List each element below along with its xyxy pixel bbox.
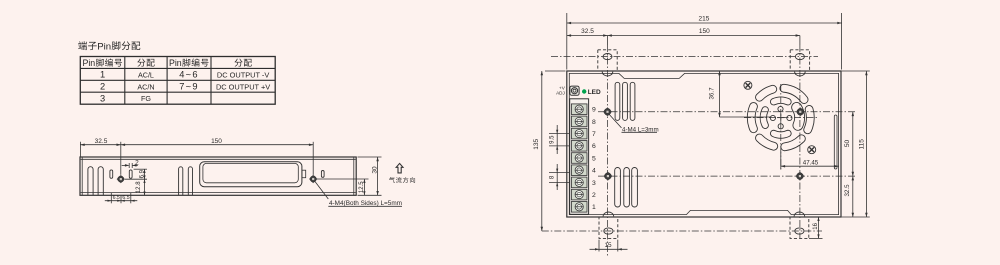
fan guard inner arc slots	[770, 97, 791, 105]
fan hub mounting holes	[778, 106, 783, 111]
side view: latch bump on louver right	[302, 170, 306, 178]
svg-text:Pin: Pin	[169, 58, 182, 68]
right edge connector slot	[834, 115, 837, 169]
svg-text:30: 30	[371, 166, 378, 174]
svg-text:7~9: 7~9	[179, 82, 199, 92]
airflow direction arrow	[396, 163, 403, 173]
svg-text:150: 150	[699, 28, 710, 35]
svg-text:4-M4 L=3mm: 4-M4 L=3mm	[622, 126, 659, 133]
dimension 215 (top)	[841, 13, 843, 70]
svg-text:36.7: 36.7	[709, 87, 716, 100]
svg-text:150: 150	[211, 138, 222, 145]
svg-text:8: 8	[550, 175, 556, 179]
svg-text:DC OUTPUT -V: DC OUTPUT -V	[217, 70, 269, 79]
svg-text:16: 16	[813, 222, 819, 229]
fan horizontal centerline	[744, 117, 819, 119]
top view: case screw lower-left 4-M4	[605, 173, 612, 180]
svg-text:DC OUTPUT +V: DC OUTPUT +V	[216, 82, 270, 91]
svg-text:9: 9	[592, 107, 596, 114]
top view: lower vent slots	[615, 168, 621, 208]
svg-text:FG: FG	[141, 94, 151, 103]
top view: tab hole bump above bottom edge (left)	[603, 212, 614, 216]
svg-text:9.5: 9.5	[550, 135, 556, 144]
top view: tab hole bump below top edge (right)	[795, 72, 806, 76]
dimension 2 (slot width)	[122, 164, 129, 166]
centerline through top tab holes	[551, 56, 818, 58]
side view: middle vent slot 1	[179, 167, 183, 195]
terminal 6	[571, 141, 587, 152]
centerline through upper case screws	[598, 111, 857, 113]
top view: bottom mounting tab (right) dashed	[790, 217, 809, 238]
svg-text:3: 3	[592, 180, 596, 187]
top view: top mounting tab (left) dashed	[598, 50, 617, 71]
svg-text:2: 2	[100, 82, 105, 92]
svg-text:6: 6	[592, 143, 596, 150]
pin assignment table grid	[80, 57, 275, 105]
svg-text:215: 215	[698, 16, 709, 23]
svg-text:2: 2	[135, 160, 139, 167]
airflow direction text	[389, 177, 395, 183]
svg-text:AC/N: AC/N	[137, 82, 154, 91]
svg-text:8: 8	[592, 119, 596, 126]
side view: middle vent slot 2	[188, 167, 192, 195]
dimension 36.7 (top edge to fan center)	[719, 71, 721, 117]
centerline vertical through right tabs and screws	[799, 45, 801, 239]
dimension 32.5 (right, screw line to bottom)	[852, 176, 854, 217]
terminal 9	[571, 104, 587, 115]
svg-text:Pin: Pin	[82, 58, 95, 68]
svg-text:1: 1	[100, 70, 105, 80]
top view: top tab hole (right)	[795, 54, 804, 60]
svg-text:4-M4(Both Sides) L=5mm: 4-M4(Both Sides) L=5mm	[329, 200, 402, 207]
svg-text:50: 50	[844, 140, 851, 148]
svg-text:7: 7	[592, 131, 596, 138]
fan vertical centerline	[780, 84, 782, 170]
svg-text:LED: LED	[588, 89, 601, 96]
svg-text:115: 115	[859, 139, 866, 150]
terminal block outline	[570, 99, 589, 215]
dimension 15 (bottom tab width)	[598, 240, 600, 252]
top view: tab hole bump above bottom edge (right)	[794, 212, 805, 216]
dimension 6.9 / 12.8 (vertical)	[134, 168, 147, 170]
top view: bottom tab hole (left)	[604, 228, 613, 234]
side view: left M4 mounting screw	[118, 176, 124, 182]
svg-text:32.5: 32.5	[581, 28, 594, 35]
label 4-M4 L=3mm with leader	[609, 115, 621, 128]
top view: upper vent slots	[615, 82, 620, 120]
svg-text:Pin: Pin	[97, 41, 111, 52]
dimension 135 (left)	[545, 70, 566, 72]
side view: small slot left of screw	[110, 170, 113, 178]
cross-recess screw top-left of fan	[744, 81, 752, 89]
dimension 50 (right, between screw lines)	[852, 112, 854, 176]
svg-text:ADJ: ADJ	[556, 90, 565, 95]
terminal 4	[571, 165, 587, 176]
fan hub center cross	[777, 117, 785, 119]
label 4-M4(Both Sides) L=5mm with leader	[315, 181, 329, 199]
top view: bottom tab hole (right)	[795, 228, 804, 234]
dimension 32.5 and 150 (top)	[607, 36, 609, 46]
side view: left vent slot 1	[88, 167, 93, 195]
side view: small slot right of screw	[129, 170, 132, 178]
table title 端子Pin脚分配	[78, 41, 87, 50]
top view: top tab hole (left)	[603, 54, 612, 60]
side view: AC inlet louver slot inner	[203, 163, 298, 182]
LED indicator (green)	[582, 89, 586, 93]
svg-text:2: 2	[592, 192, 596, 199]
top view: case screw lower-right 4-M4	[797, 173, 804, 180]
svg-text:15: 15	[604, 242, 612, 249]
terminal 1	[571, 202, 587, 213]
svg-text:6.9: 6.9	[139, 169, 145, 178]
svg-text:1: 1	[592, 204, 596, 211]
centerline vertical through left tabs and screws	[607, 45, 609, 256]
side view: PSU case body outline	[80, 157, 356, 195]
svg-text:3: 3	[100, 94, 105, 104]
dimension 115 (right, full height)	[842, 70, 870, 72]
svg-text:32.5: 32.5	[95, 138, 108, 145]
dimension 32.5 / 150 (side view top)	[80, 144, 120, 146]
top view: bottom mounting tab (left) dashed	[599, 217, 618, 238]
terminal 2	[571, 189, 587, 200]
svg-text:47.45: 47.45	[803, 159, 819, 166]
terminal 3	[571, 177, 587, 188]
top view: top mounting tab (right) dashed	[790, 50, 809, 71]
top view: PSU case body outline	[567, 71, 841, 217]
svg-text:6.5: 6.5	[122, 195, 129, 201]
dimension 9.5 (terminal pitch)	[549, 133, 569, 135]
centerline through lower case screws	[598, 175, 857, 177]
side view: right M4 mounting screw	[310, 176, 316, 182]
side view: small slot near right screw	[321, 171, 324, 178]
dimension 12.5 (right)	[317, 178, 369, 180]
dimension 16 (bottom tab height)	[809, 237, 823, 239]
svg-text:4: 4	[592, 168, 596, 175]
svg-text:4~6: 4~6	[179, 70, 199, 80]
side view: AC inlet louver slot outer	[200, 162, 302, 187]
centerline through bottom tab holes	[542, 230, 822, 232]
svg-text:AC/L: AC/L	[138, 70, 154, 79]
dimension 8 (terminal pitch lower)	[549, 171, 569, 173]
svg-text:6.5: 6.5	[113, 195, 120, 201]
top view: case screw upper-left 4-M4	[604, 108, 611, 115]
dimension 47.45 (fan center to right edge)	[780, 152, 782, 170]
side view: left vent slot 2	[98, 167, 103, 195]
svg-text:12.5: 12.5	[359, 181, 365, 193]
potentiometer +V ADJ	[570, 86, 579, 95]
top view: case screw upper-right 4-M4	[797, 108, 804, 115]
svg-text:5: 5	[592, 155, 596, 162]
svg-text:135: 135	[533, 138, 540, 149]
fan guard outer arc slots	[780, 84, 808, 103]
terminal 8	[571, 116, 587, 127]
terminal 7	[571, 128, 587, 139]
dimension 6.5 6.5 (bottom)	[110, 193, 112, 204]
top view: tab hole bump below top edge (left)	[602, 72, 613, 76]
terminal 5	[571, 153, 587, 164]
dimension 30 (right)	[358, 156, 382, 158]
svg-text:32.5: 32.5	[844, 184, 851, 197]
svg-text:12.8: 12.8	[136, 181, 142, 193]
top view: case inner edge with grooves	[569, 73, 838, 214]
